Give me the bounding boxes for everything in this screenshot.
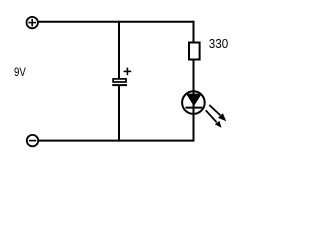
- wire right branch upper: [193, 21, 195, 42]
- LED D1 emission arrow 1: [209, 105, 226, 121]
- wire right branch middle: [193, 61, 195, 141]
- wire top: [38, 21, 195, 23]
- battery negative terminal: [27, 135, 38, 146]
- capacitor C1 top plate: [113, 79, 126, 82]
- battery positive terminal: [27, 17, 38, 28]
- wire capacitor branch top: [118, 21, 120, 79]
- capacitor C1 polarity plus: [124, 68, 132, 76]
- capacitor C1 bottom plate: [112, 84, 127, 86]
- wire bottom: [39, 140, 195, 142]
- resistor R1: [189, 43, 200, 60]
- LED D1 anode triangle: [186, 94, 202, 107]
- wire capacitor branch bottom: [118, 86, 120, 142]
- svg-text:9V: 9V: [14, 65, 26, 79]
- LED D1 circle: [182, 91, 205, 114]
- svg-text:330: 330: [209, 36, 228, 51]
- LED D1 cathode bar: [186, 107, 203, 109]
- LED D1 emission arrow 2: [206, 110, 222, 128]
